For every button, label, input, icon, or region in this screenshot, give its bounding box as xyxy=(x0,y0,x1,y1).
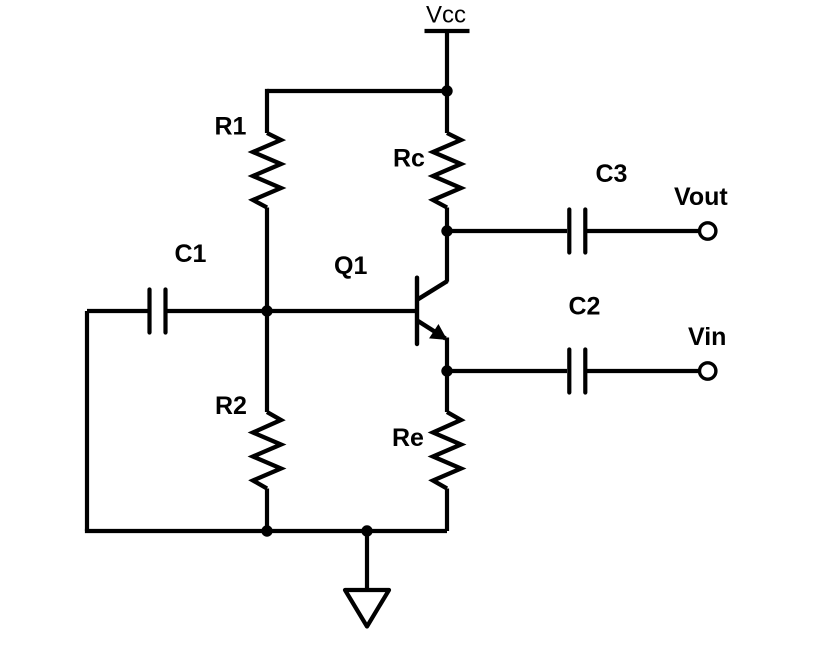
resistor R2 xyxy=(253,412,281,489)
wire R2 top lead xyxy=(265,311,269,412)
wire Rc top lead xyxy=(445,91,449,133)
resistor Rc xyxy=(433,133,461,208)
wire base horizontal right segment xyxy=(167,309,418,313)
wire top horizontal xyxy=(267,89,447,93)
wire left feedback rail xyxy=(85,311,89,531)
node collector junction xyxy=(441,225,452,236)
ground xyxy=(345,590,389,627)
svg-text:Q1: Q1 xyxy=(334,252,367,280)
svg-text:Rc: Rc xyxy=(393,144,425,172)
svg-text:Re: Re xyxy=(392,424,424,452)
capacitor C1 xyxy=(150,290,166,333)
resistor R1 xyxy=(253,133,281,208)
wire bottom horizontal xyxy=(85,529,447,533)
svg-text:C3: C3 xyxy=(596,160,628,188)
wire C2 to Vin xyxy=(585,369,699,373)
wire emitter to Re xyxy=(445,371,449,412)
wire Rc bottom lead xyxy=(445,208,449,232)
wire C3 to Vout xyxy=(585,229,699,233)
collector diagonal xyxy=(418,281,447,299)
emitter diagonal xyxy=(418,321,446,339)
wire collector lead into Q1 xyxy=(445,231,449,282)
wire base horizontal left segment xyxy=(87,309,149,313)
wire R2 bottom lead xyxy=(265,489,269,532)
wire R1 bottom lead xyxy=(265,208,269,312)
svg-text:Vout: Vout xyxy=(674,183,728,211)
node bottom ground junction xyxy=(361,525,372,536)
node emitter junction xyxy=(441,365,452,376)
wire R1 top lead xyxy=(265,89,269,133)
svg-text:C2: C2 xyxy=(569,293,601,321)
wire emitter to C2 xyxy=(447,369,567,373)
base bar xyxy=(415,278,419,344)
svg-text:Vin: Vin xyxy=(688,323,726,351)
svg-text:C1: C1 xyxy=(175,240,207,268)
svg-text:R1: R1 xyxy=(215,113,247,141)
resistor Re xyxy=(433,412,461,489)
transistor Q1 xyxy=(417,278,447,344)
node junction Vcc/top-wire xyxy=(441,85,452,96)
node bottom R2 junction xyxy=(261,525,272,536)
wire ground stem xyxy=(365,531,369,590)
wire Re bottom lead xyxy=(445,489,449,532)
capacitor C3 xyxy=(569,210,585,253)
wire collector to C3 xyxy=(447,229,567,233)
wire Vcc stem xyxy=(445,31,449,91)
capacitor C2 xyxy=(569,350,585,393)
wire emitter lead xyxy=(445,338,449,372)
emitter arrow xyxy=(431,326,446,339)
terminal Vout xyxy=(700,223,716,239)
terminal Vin xyxy=(700,363,716,379)
power symbol Vcc bar xyxy=(425,29,470,33)
svg-text:R2: R2 xyxy=(215,392,247,420)
node base junction xyxy=(261,305,272,316)
svg-text:Vcc: Vcc xyxy=(426,2,466,29)
